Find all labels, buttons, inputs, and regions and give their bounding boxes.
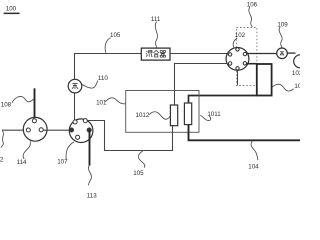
svg-text:101: 101 [96,99,107,106]
label 105 (bottom) [133,151,145,177]
label 107 [57,142,74,166]
wire: mixer to valve102 [170,53,228,55]
pump 110 [68,79,82,93]
wire: pump110 to valve107 [74,93,76,120]
valve 102 (six-port) [226,48,249,71]
label 113 [87,166,97,200]
column cell 103 (thick rectangle) [257,64,272,96]
waste line (thick bottom) from column 1011 [189,125,301,141]
wire: valve114 to valve107 [43,129,69,131]
label 104 [248,141,259,170]
label 105 [105,32,121,53]
wire: column line from valve102 left port down to column 1012 [175,64,229,106]
valve 114 (three-port) [23,117,47,141]
wire: valve102 bottom port to enclosure [237,70,239,85]
svg-text:104: 104 [294,83,300,90]
svg-text:1012: 1012 [136,112,150,119]
wire: valve107 via loop to column 1012 (thin path) [87,121,172,151]
svg-text:110: 110 [98,75,108,82]
svg-text:108: 108 [1,101,12,108]
wire: pump109 to detector [288,52,296,54]
svg-text:12: 12 [0,156,4,163]
label 109 [277,21,288,47]
label 100 (figure number) [4,5,20,14]
label 101 [96,98,126,107]
detector circle at right edge [294,55,307,68]
sample tube 113 (thick, through valve107) [89,130,91,166]
column 1011 [184,103,191,125]
svg-text:106: 106 [247,1,258,8]
wire: valve102 to pump109 [247,53,277,55]
svg-text:105: 105 [110,32,121,39]
svg-text:109: 109 [277,21,288,28]
column 1012 [170,105,177,126]
wire: valve102 right port to cell 103 (thick) [247,63,257,65]
wire: inlet corner to mixer (solvent line) [75,54,142,80]
svg-text:100: 100 [6,5,17,12]
pump 109 [277,48,288,59]
label 1011 [200,111,221,121]
label 102 [233,32,245,47]
wire: left inlet to valve114 [2,129,26,131]
svg-text:113: 113 [87,192,97,199]
label 111 [151,16,161,48]
svg-text:104: 104 [248,163,259,170]
mixer box 111 [141,48,170,60]
leader at left inlet end [1,131,4,148]
svg-text:102: 102 [235,32,246,39]
wire: cell103 bottom to column 1011 top (thick) [189,96,258,104]
label 110 [82,75,108,88]
label 114 [17,141,31,166]
label 106 [247,1,258,27]
label 104 fragment (right edge) [272,83,305,91]
svg-text:105: 105 [133,170,144,177]
sample tube 108 (thick) [34,88,36,119]
analysis unit box 101 [126,91,199,133]
label 108 [1,96,34,108]
svg-text:103: 103 [292,70,300,77]
svg-text:114: 114 [17,159,27,166]
label 1012 [136,112,171,120]
dashed enclosure 106 [237,28,257,86]
valve 107 (multi-port) [69,119,93,143]
